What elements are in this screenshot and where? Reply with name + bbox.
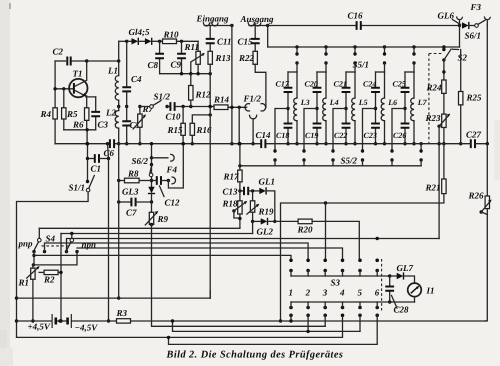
svg-text:R2: R2 — [43, 275, 55, 285]
wire: col6 bottom line — [169, 315, 378, 344]
capacitor C4 — [126, 41, 128, 106]
svg-text:L1: L1 — [107, 66, 118, 76]
svg-text:R8: R8 — [127, 169, 139, 179]
wire: line C npn inner to R23 wiper drop — [67, 239, 440, 252]
svg-text:R6: R6 — [72, 120, 84, 130]
svg-text:R18: R18 — [222, 199, 239, 209]
resistor R8 — [119, 180, 125, 182]
filter section 3 — [353, 45, 356, 48]
wire: S3 lower rotor bar — [291, 301, 415, 303]
wire: R22 to F1/2 right contact — [255, 64, 266, 107]
wire: oscillator top wire — [55, 60, 65, 62]
wire: battery line — [17, 320, 486, 322]
svg-text:R22: R22 — [238, 53, 255, 63]
svg-text:R13: R13 — [215, 53, 232, 63]
switch S6/1 — [475, 24, 479, 28]
resistor R16 — [192, 115, 210, 144]
svg-text:L4: L4 — [329, 98, 339, 107]
inductor L2 — [118, 107, 120, 111]
capacitor C11 — [209, 26, 211, 52]
node: coil tap — [117, 105, 120, 108]
svg-text:C24: C24 — [363, 80, 376, 89]
capacitor C25 — [404, 72, 406, 109]
switch S6/2 — [150, 163, 153, 166]
switch S3 column 4 — [341, 259, 345, 263]
svg-text:GL7: GL7 — [397, 263, 414, 273]
mech link S4 — [42, 245, 70, 247]
svg-text:C25: C25 — [393, 80, 406, 89]
resistor R14 — [214, 105, 228, 110]
svg-text:C2: C2 — [53, 47, 64, 57]
node: collector top junction — [85, 59, 88, 62]
svg-text:R1: R1 — [18, 278, 30, 288]
svg-text:2: 2 — [305, 288, 311, 298]
svg-text:Gl4;5: Gl4;5 — [129, 27, 150, 37]
inductor L4 — [325, 72, 327, 98]
svg-text:C27: C27 — [466, 130, 482, 140]
wire: chain vertical from bus — [151, 144, 153, 183]
capacitor C17 — [287, 72, 289, 109]
potentiometer R18 — [239, 191, 241, 201]
svg-text:S6/2: S6/2 — [132, 156, 149, 166]
svg-text:L5: L5 — [358, 98, 368, 107]
filter section 5 — [412, 45, 415, 48]
wire: col1 bottom to battery line — [290, 315, 292, 321]
resistor R12 — [190, 74, 192, 86]
svg-text:C12: C12 — [165, 198, 181, 208]
svg-text:R4: R4 — [40, 109, 52, 119]
capacitor C18 — [287, 109, 289, 144]
resistor R10 — [163, 39, 177, 44]
svg-text:R25: R25 — [466, 93, 483, 103]
wire: F node drop — [238, 107, 240, 143]
svg-text:C21: C21 — [334, 80, 347, 89]
wire: attenuator bottom line — [160, 73, 211, 75]
capacitor C13 — [238, 189, 241, 192]
switch S1/1 — [87, 144, 89, 182]
wire: emitter bottom tie — [64, 130, 96, 144]
node: C7 junction — [150, 200, 153, 203]
capacitor C21 — [345, 72, 347, 109]
resistor R21 — [443, 144, 445, 179]
diode GL5 — [145, 38, 152, 44]
svg-text:C11: C11 — [217, 37, 232, 47]
wire: section 2 mid tap — [315, 107, 318, 110]
capacitor C3 — [95, 97, 97, 130]
wire: output line to GL6 — [268, 25, 460, 27]
wire to R10 — [152, 40, 163, 42]
svg-text:−4,5V: −4,5V — [75, 323, 99, 333]
diode GL4 — [132, 38, 139, 44]
svg-text:L7: L7 — [417, 98, 428, 107]
svg-text:R15: R15 — [167, 125, 184, 135]
svg-text:R20: R20 — [297, 225, 314, 235]
potentiometer R19 — [252, 191, 254, 201]
switch S4 left pole — [38, 238, 42, 242]
wire: right rail — [486, 26, 488, 144]
potentiometer R26 — [486, 144, 488, 196]
wire: left lower rail (L2 bottom continues) — [118, 144, 120, 298]
svg-text:C14: C14 — [256, 130, 272, 140]
node: L1 top tee — [117, 59, 120, 62]
svg-text:C23: C23 — [364, 131, 377, 140]
svg-text:S5/2: S5/2 — [341, 156, 358, 166]
wire: Eingang-Ausgang tee drop — [231, 26, 233, 144]
svg-text:C19: C19 — [305, 131, 318, 140]
potentiometer R7 — [139, 107, 141, 144]
svg-text:S1/1: S1/1 — [69, 183, 86, 193]
wire: S5/2 rotor bar — [240, 165, 421, 167]
wire: main middle bus — [55, 143, 487, 145]
capacitor C27 — [471, 139, 475, 148]
wire: R21 line drop to col3 — [325, 203, 327, 259]
battery +4.5V — [51, 314, 53, 328]
wire: R9 drop to col3 line — [152, 225, 326, 327]
switch S3 column 2 — [306, 259, 310, 263]
node: R5 top junction — [62, 87, 65, 90]
resistor R17 — [239, 144, 241, 170]
capacitor C26 — [404, 109, 406, 144]
svg-text:Bild 2. Die Schaltung des Prüf: Bild 2. Die Schaltung des Prüfgerätes — [166, 350, 344, 361]
svg-text:R26: R26 — [468, 191, 485, 201]
wire: GL4 diode feed line — [119, 40, 132, 42]
svg-text:F3: F3 — [470, 2, 482, 12]
capacitor C8 — [159, 41, 161, 73]
resistor R5 — [63, 89, 65, 130]
switch S3 column 6 — [375, 259, 379, 263]
svg-text:GL1: GL1 — [259, 177, 276, 187]
potentiometer R23 — [442, 114, 446, 127]
meter I1 — [408, 283, 422, 297]
wire: base wire — [55, 88, 74, 90]
wire: left rail bottom to col4 line — [17, 315, 343, 337]
svg-text:R14: R14 — [213, 95, 230, 105]
potentiometer R9 — [151, 202, 153, 212]
switch S3 column 1 — [289, 259, 293, 263]
diode GL2 — [253, 220, 261, 222]
svg-text:Ausgang: Ausgang — [240, 14, 275, 24]
wire: npn outer riser — [33, 252, 77, 265]
wire: line D S4 contact to col2 — [45, 243, 309, 260]
socket clip F4 upper — [171, 154, 174, 161]
svg-text:C1: C1 — [91, 164, 102, 174]
wire: line F pnp outer to col1 — [34, 255, 291, 260]
node: R8/C12 junction — [150, 179, 153, 182]
capacitor C22 — [345, 109, 347, 144]
capacitor C23 — [375, 109, 377, 144]
diode GL3 — [151, 183, 153, 187]
svg-text:5: 5 — [358, 288, 363, 298]
svg-text:F1/2: F1/2 — [243, 94, 262, 104]
socket clip F4 lower — [172, 177, 175, 184]
filter section 1 — [295, 45, 298, 48]
capacitor C7 — [119, 201, 131, 203]
svg-text:S2: S2 — [458, 53, 468, 63]
svg-text:GL6: GL6 — [438, 11, 455, 21]
svg-text:F4: F4 — [166, 165, 178, 175]
wire: section 5 mid tap — [403, 107, 406, 110]
filter section 4 — [383, 45, 386, 48]
svg-text:C10: C10 — [166, 112, 182, 122]
resistor R4 — [53, 108, 57, 119]
capacitor C20 — [316, 72, 318, 109]
capacitor C14 (on bus) — [261, 139, 265, 148]
svg-text:S3: S3 — [331, 278, 341, 288]
wire: S3 upper rotor bar joining GL7 line — [291, 275, 390, 277]
potentiometer R1 — [31, 268, 35, 279]
svg-text:R5: R5 — [66, 109, 78, 119]
svg-text:C3: C3 — [98, 120, 109, 130]
wire: x108 long vertical — [108, 144, 109, 321]
svg-text:T1: T1 — [73, 69, 83, 79]
switch S5/2 position 6 stub — [419, 142, 422, 145]
svg-text:R3: R3 — [116, 308, 128, 318]
wire between diodes — [139, 40, 145, 42]
capacitor C19 — [316, 109, 318, 144]
svg-text:R16: R16 — [196, 125, 213, 135]
resistor R20 — [268, 220, 298, 222]
inductor L1 — [118, 61, 120, 76]
inductor L6 — [384, 72, 386, 98]
svg-text:C15: C15 — [238, 37, 254, 47]
S4 contacts — [32, 250, 35, 253]
svg-text:S6/1: S6/1 — [465, 31, 482, 41]
svg-text:R11: R11 — [184, 42, 200, 52]
svg-text:C26: C26 — [393, 131, 406, 140]
transistor T1 — [69, 79, 87, 97]
capacitor C9 — [181, 41, 183, 73]
svg-text:+4,5V: +4,5V — [28, 322, 51, 332]
svg-text:S4: S4 — [46, 234, 56, 244]
svg-text:C8: C8 — [148, 60, 159, 70]
wire: R23 wiper drop — [438, 126, 440, 238]
svg-text:R17: R17 — [223, 172, 240, 182]
capacitor C2 — [67, 57, 70, 66]
svg-text:R12: R12 — [195, 90, 212, 100]
resistor R22 — [253, 51, 257, 64]
wire: line E npn outer to col4 — [77, 248, 343, 260]
diode GL6 — [462, 22, 469, 28]
wire: right rail bottom corner — [485, 320, 487, 322]
wire: to F4 upper clip — [152, 157, 168, 159]
capacitor C6 (on bus) — [110, 139, 114, 148]
wire: section 1 mid tap — [286, 107, 289, 110]
wire: col3 bottom to R9 line — [324, 315, 326, 326]
resistor R13 — [208, 51, 212, 64]
svg-text:L2: L2 — [105, 108, 116, 118]
inductor L7 — [413, 72, 415, 98]
wire: long vertical from input network down — [209, 74, 211, 298]
battery -4.5V — [66, 318, 69, 325]
svg-text:I1: I1 — [426, 286, 435, 296]
inductor L5 — [354, 72, 356, 98]
wire: line B centre rail to GL2 node — [61, 233, 253, 235]
svg-text:L6: L6 — [387, 98, 397, 107]
wire: filter top bus — [268, 46, 460, 48]
svg-text:C18: C18 — [276, 131, 289, 140]
wire: oscillator left vertical rail — [54, 61, 56, 144]
svg-text:R19: R19 — [258, 207, 275, 217]
wire: centre rail x60.5 — [60, 234, 62, 322]
svg-text:S1/2: S1/2 — [154, 92, 171, 102]
terminal: supply jack left — [457, 17, 463, 25]
filter section 2 — [324, 45, 327, 48]
svg-text:C4: C4 — [131, 74, 142, 84]
svg-text:4: 4 — [339, 288, 345, 298]
capacitor C10 — [167, 106, 183, 108]
wire: ground return line — [17, 297, 211, 299]
potentiometer R11 — [197, 41, 199, 73]
svg-text:L3: L3 — [300, 98, 310, 107]
resistor R15 — [182, 107, 184, 144]
node: base-left junction — [53, 87, 56, 90]
wire: GL6 drop to filter bus — [459, 26, 461, 48]
capacitor C12 — [152, 180, 157, 182]
capacitor C28 — [389, 276, 391, 302]
capacitor C16 — [357, 21, 361, 30]
svg-text:3: 3 — [322, 288, 328, 298]
svg-text:1: 1 — [289, 288, 294, 298]
svg-text:C22: C22 — [334, 131, 347, 140]
switch S3 column 3 — [323, 259, 327, 263]
wire: emitter node down + right — [86, 96, 96, 108]
wire: line A S4 to R18 — [39, 227, 240, 229]
svg-text:R10: R10 — [163, 30, 180, 40]
resistor R3 — [117, 319, 131, 323]
svg-text:R9: R9 — [157, 214, 169, 224]
svg-text:R21: R21 — [425, 183, 441, 193]
svg-text:C16: C16 — [348, 11, 364, 21]
wire: S1/1 to left rail — [17, 192, 89, 338]
inductor L3 — [296, 72, 298, 98]
resistor R6 — [85, 108, 89, 121]
svg-text:GL3: GL3 — [122, 187, 139, 197]
wire: C12 node to bus riser — [168, 144, 183, 188]
switch S4 right pole — [70, 238, 74, 242]
mech link dashes S3 — [381, 259, 383, 311]
svg-text:R24: R24 — [426, 83, 443, 93]
wire: pnp outer contact to R1 — [33, 252, 35, 265]
svg-text:C9: C9 — [171, 60, 182, 70]
switch S3 column 5 — [358, 259, 362, 263]
resistor R25 — [453, 49, 461, 91]
svg-text:C7: C7 — [126, 208, 137, 218]
svg-text:GL2: GL2 — [257, 227, 274, 237]
resistor R24 — [443, 60, 445, 80]
wire: section 3 mid tap — [344, 107, 347, 110]
wire: line to R14 — [183, 106, 214, 108]
capacitor C15 — [254, 26, 256, 52]
svg-text:C17: C17 — [276, 80, 290, 89]
resistor R2 — [39, 271, 44, 273]
switch S2 — [442, 45, 445, 48]
svg-text:Eingang: Eingang — [196, 14, 230, 24]
wire: section 4 mid tap — [374, 107, 377, 110]
svg-text:6: 6 — [375, 288, 380, 298]
switch S1/2 — [140, 106, 150, 108]
mech link dashes for S2/S5 — [428, 54, 430, 144]
wire: col2+col5 bottom line — [173, 315, 309, 331]
svg-text:C20: C20 — [305, 80, 318, 89]
svg-text:C13: C13 — [223, 187, 239, 197]
capacitor C5 — [126, 107, 128, 144]
svg-text:pnp: pnp — [18, 239, 34, 249]
capacitor C1 — [86, 157, 89, 160]
capacitor C24 — [375, 72, 377, 109]
svg-text:R23: R23 — [425, 113, 442, 123]
wire: Ausgang corner to filter top bus — [267, 26, 269, 48]
